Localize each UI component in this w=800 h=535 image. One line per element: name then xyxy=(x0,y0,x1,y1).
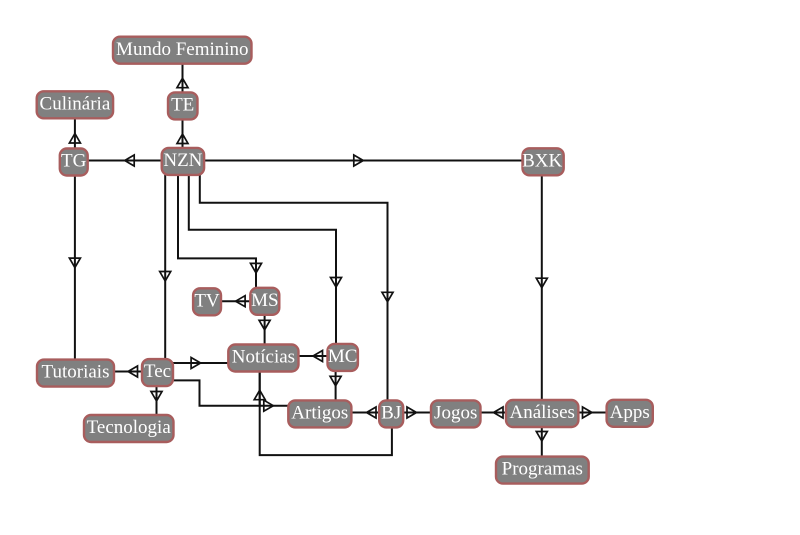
svg-text:MC: MC xyxy=(328,346,358,367)
svg-text:TE: TE xyxy=(171,95,194,116)
svg-text:BXK: BXK xyxy=(522,150,562,171)
svg-text:Tec: Tec xyxy=(144,361,171,382)
svg-text:TV: TV xyxy=(194,290,220,311)
svg-text:MS: MS xyxy=(251,290,278,311)
svg-text:Apps: Apps xyxy=(610,402,650,423)
svg-text:Programas: Programas xyxy=(502,459,583,480)
svg-text:Culinária: Culinária xyxy=(40,93,111,114)
svg-text:Análises: Análises xyxy=(509,402,574,423)
svg-text:Mundo Feminino: Mundo Feminino xyxy=(116,39,248,60)
svg-text:TG: TG xyxy=(61,151,87,172)
svg-text:Notícias: Notícias xyxy=(232,347,295,368)
svg-text:NZN: NZN xyxy=(163,150,202,171)
svg-text:Tutoriais: Tutoriais xyxy=(42,362,110,383)
svg-text:BJ: BJ xyxy=(381,403,401,424)
svg-text:Tecnologia: Tecnologia xyxy=(87,417,172,438)
svg-text:Jogos: Jogos xyxy=(434,403,477,424)
svg-text:Artigos: Artigos xyxy=(291,403,348,424)
